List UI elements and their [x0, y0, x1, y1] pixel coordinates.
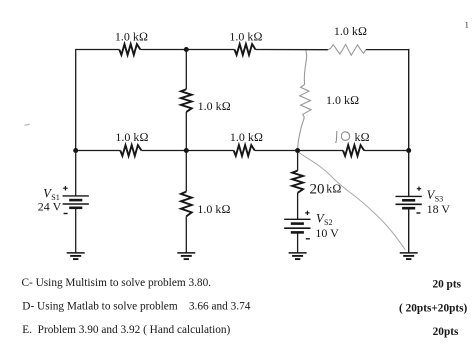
- label R6 handwritten 0: [341, 132, 349, 140]
- svg-text:1.0 kΩ: 1.0 kΩ: [230, 130, 263, 144]
- battery VS3: [396, 196, 422, 208]
- svg-text:1.0 kΩ: 1.0 kΩ: [326, 93, 359, 107]
- battery VS2 minus: [306, 238, 310, 240]
- hand-drawn vertical branch wire upper: [304, 50, 306, 84]
- svg-text:kΩ: kΩ: [355, 130, 370, 144]
- junction node mid-left: [73, 148, 78, 153]
- wire left rail: [75, 49, 77, 196]
- battery VS2: [284, 219, 310, 232]
- resistor R4 1.0k mid-left: [120, 145, 141, 156]
- junction node mid-3: [295, 148, 300, 153]
- svg-text:1.0 kΩ: 1.0 kΩ: [229, 29, 262, 43]
- svg-text:1.0 kΩ: 1.0 kΩ: [115, 130, 148, 144]
- svg-text:20: 20: [310, 181, 325, 197]
- wire left rail lower: [75, 208, 77, 253]
- junction node mid-2: [184, 148, 189, 153]
- junction node top: [184, 47, 189, 52]
- resistor R1 1.0k top-left: [119, 44, 140, 55]
- battery VS3 minus: [416, 212, 420, 214]
- resistor R6 mid-right: [343, 145, 364, 156]
- svg-text:10 V: 10 V: [315, 226, 339, 240]
- battery VS1 minus: [64, 213, 68, 215]
- battery VS2 plus: [305, 211, 309, 215]
- label R6 handwritten 1: [336, 131, 337, 143]
- resistor R7 20k vertical: [292, 171, 303, 193]
- svg-text:1.0 kΩ: 1.0 kΩ: [334, 24, 367, 38]
- junction node mid-right: [406, 148, 411, 153]
- ground G1: [67, 253, 85, 259]
- svg-text:1.0 kΩ: 1.0 kΩ: [197, 202, 230, 216]
- svg-text:18 V: 18 V: [427, 202, 451, 216]
- hand-drawn vertical branch wire lower: [298, 117, 305, 150]
- svg-text:C- Using Multisim to solve pro: C- Using Multisim to solve problem 3.80.: [22, 277, 212, 289]
- svg-text:20 pts: 20 pts: [432, 278, 461, 290]
- ground G3: [289, 253, 307, 259]
- battery VS1 plus: [63, 186, 67, 190]
- hand-drawn resistor vertical: [300, 85, 311, 118]
- wire second vertical rail: [185, 50, 187, 253]
- stray pencil dash left: [25, 123, 30, 126]
- svg-text:( 20pts+20pts): ( 20pts+20pts): [399, 303, 467, 315]
- ground G2: [177, 253, 195, 259]
- resistor R3 1.0k vertical upper: [181, 89, 192, 112]
- resistor R8 1.0k vertical lower: [181, 192, 192, 217]
- svg-text:E. Problem 3.90 and 3.92 ( Ha: E. Problem 3.90 and 3.92 ( Hand calculat…: [22, 324, 230, 336]
- hand-drawn long curve to right ground: [299, 152, 406, 250]
- svg-text:1.0 kΩ: 1.0 kΩ: [198, 99, 231, 113]
- wire middle rail: [75, 150, 409, 152]
- resistor R5 1.0k mid-middle: [234, 145, 255, 156]
- ground G4: [400, 253, 418, 259]
- svg-text:1.0 kΩ: 1.0 kΩ: [115, 29, 148, 43]
- svg-text:20pts: 20pts: [433, 326, 459, 338]
- wire right rail: [408, 49, 410, 253]
- hand-drawn resistor top-right: [328, 44, 366, 55]
- battery VS1: [63, 196, 89, 208]
- svg-text:24 V: 24 V: [38, 199, 62, 213]
- wire top rail: [76, 49, 409, 51]
- svg-text:1: 1: [465, 21, 469, 30]
- resistor R2 1.0k top-middle: [235, 44, 256, 55]
- svg-text:D- Using Matlab to solve probl: D- Using Matlab to solve problem 3.66 an…: [22, 300, 250, 312]
- battery VS3 plus: [417, 187, 421, 191]
- wire node-3 vertical rail: [297, 151, 299, 253]
